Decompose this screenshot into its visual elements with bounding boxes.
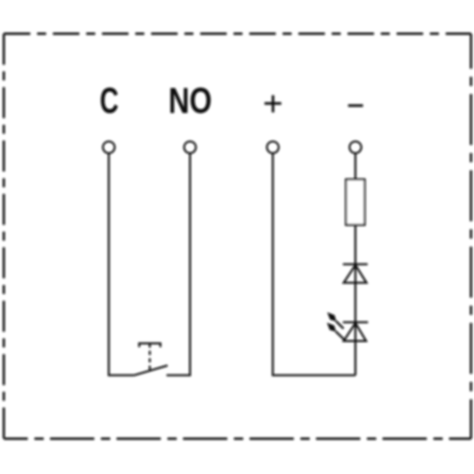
svg-text:C: C bbox=[100, 81, 119, 121]
svg-text:NO: NO bbox=[168, 80, 211, 121]
